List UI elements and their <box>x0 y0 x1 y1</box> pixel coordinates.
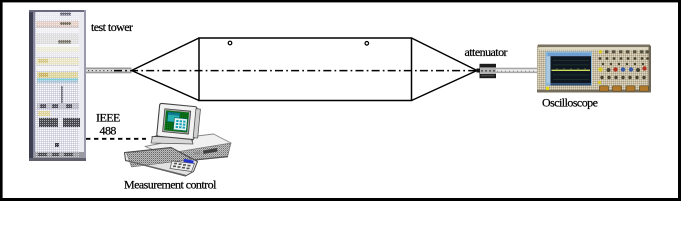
svg-text:IEEE: IEEE <box>96 111 120 125</box>
screen <box>551 56 592 83</box>
blue key <box>183 159 193 164</box>
case front face <box>164 143 231 163</box>
keyboard lower edge shadow <box>126 161 186 176</box>
key field <box>127 148 193 167</box>
case bottom shadow <box>170 157 228 163</box>
probe 2 <box>365 42 369 46</box>
case button <box>194 151 201 155</box>
monitor stand <box>151 137 193 145</box>
floppy slot <box>203 148 218 154</box>
measurement control computer <box>125 103 232 176</box>
TEM cell body <box>132 38 478 101</box>
test tower rack photo <box>29 10 86 161</box>
buttons area <box>598 50 649 91</box>
numeric keypad <box>170 161 195 172</box>
keyboard <box>125 148 198 177</box>
svg-text:Measurement control: Measurement control <box>124 178 217 192</box>
screen frame <box>546 52 593 86</box>
monitor <box>157 103 201 140</box>
IEEE-488 dashed bus line <box>86 138 146 140</box>
oscilloscope photo <box>537 45 651 93</box>
coax from attenuator to oscilloscope <box>496 68 539 73</box>
attenuator block <box>477 64 497 78</box>
probe 1 <box>228 41 232 45</box>
svg-text:test tower: test tower <box>91 20 133 34</box>
svg-text:attenuator: attenuator <box>465 45 508 59</box>
svg-text:Oscilloscope: Oscilloscope <box>542 96 598 110</box>
coax feed line from rack to cell <box>86 68 132 74</box>
monitor shadow on case <box>152 134 194 142</box>
case top face <box>145 134 231 154</box>
svg-text:488: 488 <box>100 124 117 138</box>
center line (dash-dot) <box>88 70 114 72</box>
